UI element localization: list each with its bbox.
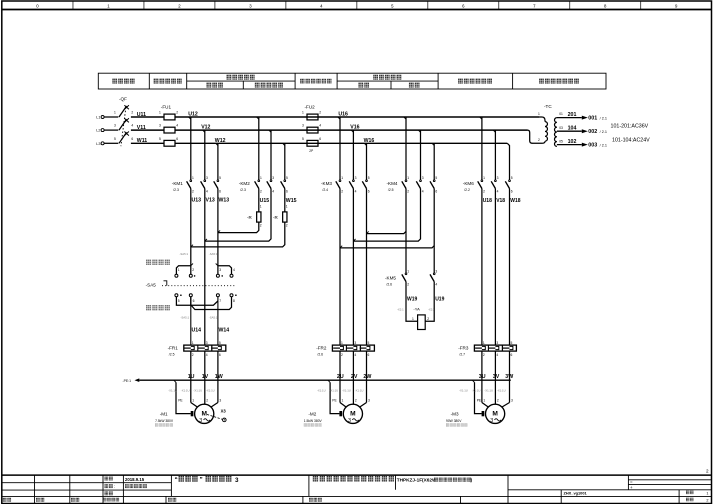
svg-text:2: 2 (192, 353, 194, 357)
svg-text:-SA5:1: -SA5:1 (209, 315, 218, 319)
svg-text:1: 1 (260, 205, 262, 209)
svg-text:2: 2 (483, 189, 485, 193)
wires FR3 to motor M3 (481, 351, 483, 402)
wire KM4-1 to W output (405, 189, 407, 234)
net 201 output 001 (557, 117, 582, 119)
svg-text:3: 3 (219, 399, 221, 403)
svg-text:1: 1 (178, 268, 180, 272)
svg-text:1: 1 (407, 176, 409, 180)
svg-text:W13: W13 (219, 198, 230, 204)
svg-text:-KM6: -KM6 (463, 181, 474, 186)
svg-text:-KM1: -KM1 (172, 181, 183, 186)
svg-text:-QF: -QF (119, 97, 127, 102)
svg-text:2: 2 (131, 111, 133, 115)
wire U17 down (339, 189, 341, 346)
PE drop to motor -M3 (472, 380, 474, 382)
svg-text:-X1:1U: -X1:1U (342, 388, 351, 392)
svg-text:1: 1 (341, 176, 343, 180)
svg-text:1: 1 (114, 111, 116, 115)
svg-text:5: 5 (368, 341, 370, 345)
svg-text:5: 5 (286, 176, 288, 180)
svg-text:-KM2: -KM2 (239, 181, 250, 186)
svg-text:5: 5 (219, 341, 221, 345)
svg-text:2: 2 (355, 399, 357, 403)
wire SA5 top bridge left (176, 266, 190, 275)
svg-text:3U: 3U (479, 374, 486, 380)
svg-text:4: 4 (272, 189, 274, 193)
svg-text:2: 2 (260, 224, 262, 228)
svg-text:2: 2 (206, 399, 208, 403)
svg-text:4: 4 (354, 353, 356, 357)
svg-text:-PE:1: -PE:1 (123, 379, 132, 383)
svg-text:/2.3: /2.3 (173, 188, 179, 192)
svg-text:2: 2 (483, 353, 485, 357)
svg-text:U19: U19 (435, 297, 444, 303)
label spindle forward (146, 260, 170, 265)
wire V18 down (494, 189, 496, 346)
svg-text:5: 5 (219, 176, 221, 180)
svg-text:4: 4 (233, 268, 235, 272)
svg-text:3: 3 (206, 341, 208, 345)
svg-text:6: 6 (131, 137, 133, 141)
svg-text:W11: W11 (137, 138, 147, 144)
svg-text:-KM5: -KM5 (385, 276, 396, 281)
svg-text:V18: V18 (496, 198, 505, 204)
svg-text:1: 1 (483, 176, 485, 180)
svg-text:”: ” (200, 477, 203, 484)
wire KM4-2 to V output (353, 189, 420, 242)
svg-text:-X1:1U: -X1:1U (206, 388, 215, 392)
svg-text:003: 003 (588, 143, 597, 149)
svg-text:U11: U11 (137, 112, 146, 118)
wire KM4-3 to U output (433, 189, 435, 248)
svg-text:3: 3 (354, 341, 356, 345)
svg-text:/2.3: /2.3 (240, 188, 246, 192)
svg-text:-FU1: -FU1 (161, 104, 172, 109)
svg-text:-M1: -M1 (160, 411, 168, 416)
svg-text:-X1:1U: -X1:1U (168, 388, 177, 392)
svg-text:2: 2 (538, 138, 540, 142)
svg-text:ZHX_vg1001: ZHX_vg1001 (564, 491, 588, 496)
svg-text:2: 2 (427, 317, 429, 321)
svg-text:W14: W14 (219, 328, 230, 334)
svg-text:2: 2 (176, 111, 178, 115)
svg-text:L3: L3 (96, 142, 100, 146)
svg-text:4: 4 (206, 353, 208, 357)
svg-text:2: 2 (192, 189, 194, 193)
svg-text:3: 3 (497, 176, 499, 180)
svg-text:3: 3 (490, 418, 493, 424)
wire phase-1 bus (131, 116, 164, 118)
svg-text:104: 104 (568, 126, 577, 132)
wire phase-2 bus (131, 129, 164, 131)
svg-text:1: 1 (412, 317, 414, 321)
wire W14 (217, 297, 219, 345)
svg-text:5: 5 (178, 299, 180, 303)
svg-text:-SA5: -SA5 (146, 283, 157, 288)
svg-text:4: 4 (496, 353, 498, 357)
svg-text:-FU2: -FU2 (305, 104, 316, 109)
wires FR1 to motor M1 (190, 351, 192, 402)
svg-text:-SA5:1: -SA5:1 (209, 252, 218, 256)
svg-text:-SA5:1: -SA5:1 (181, 315, 190, 319)
svg-text:2W: 2W (363, 374, 371, 380)
wire U14 (190, 297, 192, 345)
svg-text:2: 2 (319, 111, 321, 115)
svg-text:+: + (630, 485, 633, 490)
svg-text:2: 2 (706, 499, 708, 503)
svg-text:-YA: -YA (413, 307, 420, 312)
svg-text:1: 1 (706, 491, 708, 495)
svg-text:3: 3 (496, 341, 498, 345)
svg-text:1U: 1U (188, 374, 195, 380)
svg-text:102: 102 (568, 139, 577, 145)
svg-text:-FR2: -FR2 (316, 345, 327, 350)
wire SA5 top bridge right (218, 266, 232, 275)
svg-text:/2.2: /2.2 (464, 188, 470, 192)
svg-text:5: 5 (511, 176, 513, 180)
svg-text:U14: U14 (192, 328, 202, 334)
svg-text:U13: U13 (192, 198, 202, 204)
svg-text:2: 2 (192, 268, 194, 272)
svg-text:U16: U16 (338, 112, 348, 118)
svg-text:101-104:AC24V: 101-104:AC24V (612, 138, 650, 144)
wire R2 to U13 (191, 222, 285, 247)
svg-text:-X1:1U: -X1:1U (484, 388, 493, 392)
PE drop to motor -M2 (328, 380, 330, 382)
svg-text:/2.5: /2.5 (169, 353, 175, 357)
svg-text:3: 3 (422, 176, 424, 180)
svg-text:03: 03 (559, 126, 563, 130)
svg-text:W18: W18 (510, 198, 521, 204)
svg-text:/2.7: /2.7 (459, 353, 465, 357)
wire phase-3 bus (131, 142, 164, 144)
svg-text:V12: V12 (201, 125, 210, 131)
svg-text:3: 3 (368, 399, 370, 403)
svg-text:X3: X3 (221, 408, 227, 413)
svg-text:3: 3 (206, 176, 208, 180)
svg-text:W12: W12 (215, 138, 226, 144)
svg-text:6: 6 (511, 353, 513, 357)
svg-text:W19: W19 (407, 297, 418, 303)
svg-text:4: 4 (206, 189, 208, 193)
svg-text:-M3: -M3 (451, 411, 459, 416)
wire SA5 bottom bridge 2-4 (191, 297, 232, 310)
svg-text:/ 2.1: / 2.1 (600, 130, 607, 134)
svg-text:4: 4 (497, 189, 499, 193)
svg-text:2: 2 (341, 353, 343, 357)
svg-text:2P: 2P (309, 149, 313, 153)
svg-text:/2.6: /2.6 (386, 283, 392, 287)
wire V17 down (352, 189, 354, 346)
svg-text:-TC: -TC (544, 104, 552, 109)
svg-text:-M2: -M2 (308, 411, 316, 416)
svg-text:/2.6: /2.6 (317, 353, 323, 357)
wire W17 down (366, 189, 368, 346)
wire W18 down (509, 189, 511, 346)
svg-text:3: 3 (272, 176, 274, 180)
svg-text::: : (114, 484, 115, 489)
svg-text:U15: U15 (260, 198, 270, 204)
svg-text:4: 4 (319, 124, 321, 128)
svg-text:1: 1 (260, 176, 262, 180)
svg-text:5: 5 (511, 341, 513, 345)
wires FR2 to motor M2 (339, 351, 341, 402)
svg-text:2018.9.15: 2018.9.15 (125, 477, 145, 482)
svg-text:-KM3: -KM3 (321, 181, 332, 186)
svg-text:4: 4 (435, 282, 437, 286)
svg-text:2: 2 (407, 189, 409, 193)
svg-text:2: 2 (286, 224, 288, 228)
svg-text:1: 1 (483, 399, 485, 403)
svg-text:001: 001 (588, 116, 597, 122)
svg-text:-X1:1U: -X1:1U (317, 388, 326, 392)
svg-text:5: 5 (435, 176, 437, 180)
svg-text:-X1:1U: -X1:1U (472, 388, 481, 392)
wire PE bus (139, 379, 511, 381)
svg-text:1: 1 (407, 269, 409, 273)
svg-text:1: 1 (192, 341, 194, 345)
svg-text:W16: W16 (364, 138, 375, 144)
svg-text:1: 1 (159, 111, 161, 115)
motor M1 shield terminal X3 (207, 414, 222, 419)
PE drop to motor -M1 (174, 380, 176, 382)
svg-text:7.5kW 380V: 7.5kW 380V (155, 419, 174, 423)
net 102 output 003 (557, 144, 582, 146)
svg-text:5: 5 (302, 137, 304, 141)
svg-text:5: 5 (114, 137, 116, 141)
SA5 contact circles bottom row (175, 294, 178, 297)
svg-text:3: 3 (302, 124, 304, 128)
svg-text:-SA5:1: -SA5:1 (180, 252, 189, 256)
svg-text:-KM4: -KM4 (387, 181, 398, 186)
svg-text:5: 5 (368, 176, 370, 180)
svg-text:/ 2.1: / 2.1 (600, 116, 607, 120)
svg-text:2: 2 (706, 469, 709, 474)
svg-text:6: 6 (368, 189, 370, 193)
svg-text:-X1:1U: -X1:1U (181, 388, 190, 392)
svg-text:3: 3 (435, 269, 437, 273)
svg-text:-X1:1U: -X1:1U (193, 388, 202, 392)
svg-text:3: 3 (348, 418, 351, 424)
function zone header table (98, 73, 606, 89)
svg-text:6: 6 (511, 189, 513, 193)
company name (313, 476, 394, 482)
svg-text:3: 3 (511, 399, 513, 403)
svg-text:3: 3 (114, 124, 116, 128)
svg-text:1: 1 (192, 176, 194, 180)
svg-text:1: 1 (341, 341, 343, 345)
svg-text:1: 1 (286, 205, 288, 209)
svg-text:2: 2 (260, 189, 262, 193)
svg-text:7: 7 (219, 299, 221, 303)
svg-text:6: 6 (435, 189, 437, 193)
wire V13 down (through SA5) (204, 189, 206, 346)
svg-text:1V: 1V (202, 374, 209, 380)
svg-text:1: 1 (302, 111, 304, 115)
wire U13 down (190, 189, 192, 275)
svg-text:90W 380V: 90W 380V (446, 419, 462, 423)
svg-text:L1: L1 (96, 116, 100, 120)
svg-text:6: 6 (219, 353, 221, 357)
svg-text:-FR1: -FR1 (168, 345, 179, 350)
svg-text:4: 4 (422, 189, 424, 193)
svg-text:-R: -R (273, 215, 278, 220)
motor -M3 (481, 402, 483, 404)
svg-text:1: 1 (342, 399, 344, 403)
svg-text:M: M (201, 410, 207, 417)
svg-text:-X1:1U: -X1:1U (330, 388, 339, 392)
svg-text:V16: V16 (350, 125, 359, 131)
svg-text:2V: 2V (351, 374, 358, 380)
svg-text:3W: 3W (505, 374, 513, 380)
svg-text:V11: V11 (137, 125, 146, 131)
svg-text:4: 4 (176, 124, 178, 128)
svg-text:05: 05 (559, 139, 563, 143)
svg-text:8: 8 (233, 299, 235, 303)
svg-text:101-201:AC36V: 101-201:AC36V (611, 124, 649, 130)
wire W13 down (217, 189, 219, 275)
svg-text:2: 2 (497, 399, 499, 403)
svg-text:2U: 2U (337, 374, 344, 380)
svg-text:6: 6 (286, 189, 288, 193)
svg-text:/2.4: /2.4 (322, 188, 328, 192)
svg-text:-X1:1U: -X1:1U (459, 388, 468, 392)
svg-text:1: 1 (538, 112, 540, 116)
svg-text:THPKZJ-1F(X62W: THPKZJ-1F(X62W (397, 478, 437, 483)
motor -M1 (190, 402, 192, 404)
svg-text:3: 3 (159, 124, 161, 128)
svg-text:-R: -R (247, 215, 252, 220)
motor -M2 (339, 402, 341, 404)
svg-text:1W: 1W (215, 374, 223, 380)
svg-text:3: 3 (235, 477, 239, 484)
svg-text:2: 2 (341, 189, 343, 193)
svg-text:6: 6 (219, 189, 221, 193)
svg-text:/ 2.1: / 2.1 (600, 143, 607, 147)
svg-text:“: “ (175, 477, 178, 484)
wire SA5 bottom bridge 1-3 (176, 297, 218, 305)
wire KM2 mid to V13 (205, 189, 271, 242)
svg-text:3: 3 (219, 268, 221, 272)
svg-text:1: 1 (192, 399, 194, 403)
svg-text:M: M (492, 410, 498, 417)
svg-text:L2: L2 (96, 129, 100, 133)
svg-text:/2.5: /2.5 (388, 188, 394, 192)
svg-text:4: 4 (355, 189, 357, 193)
svg-text:002: 002 (588, 129, 597, 135)
svg-text:6: 6 (176, 137, 178, 141)
SA5 contact circles top row (175, 274, 178, 277)
label spindle reverse (146, 305, 170, 310)
svg-text:3: 3 (199, 418, 202, 424)
svg-text:01: 01 (559, 112, 563, 116)
svg-text:5: 5 (159, 137, 161, 141)
svg-text:6: 6 (193, 299, 195, 303)
svg-text:2: 2 (407, 282, 409, 286)
svg-text:-X2:1: -X2:1 (397, 308, 404, 312)
svg-text:3V: 3V (493, 374, 500, 380)
svg-text:U18: U18 (483, 198, 492, 204)
svg-text:3: 3 (355, 176, 357, 180)
svg-text:1.5kW 380V: 1.5kW 380V (304, 419, 323, 423)
svg-text:-X1:1U: -X1:1U (355, 388, 364, 392)
svg-text:1: 1 (483, 341, 485, 345)
svg-text:-X1:1U: -X1:1U (497, 388, 506, 392)
svg-text:V13: V13 (206, 198, 215, 204)
svg-text:6: 6 (319, 137, 321, 141)
svg-text:-FR3: -FR3 (458, 345, 469, 350)
svg-text:4: 4 (131, 124, 133, 128)
svg-text:6: 6 (368, 353, 370, 357)
svg-text:U12: U12 (188, 112, 198, 118)
svg-text:M: M (350, 410, 356, 417)
net 104 output 002 (557, 130, 582, 132)
svg-text:201: 201 (568, 112, 577, 118)
wire U18 down (481, 189, 483, 346)
wire R1 to W13 (218, 222, 259, 233)
svg-text:W15: W15 (286, 198, 297, 204)
title block (2, 474, 712, 476)
